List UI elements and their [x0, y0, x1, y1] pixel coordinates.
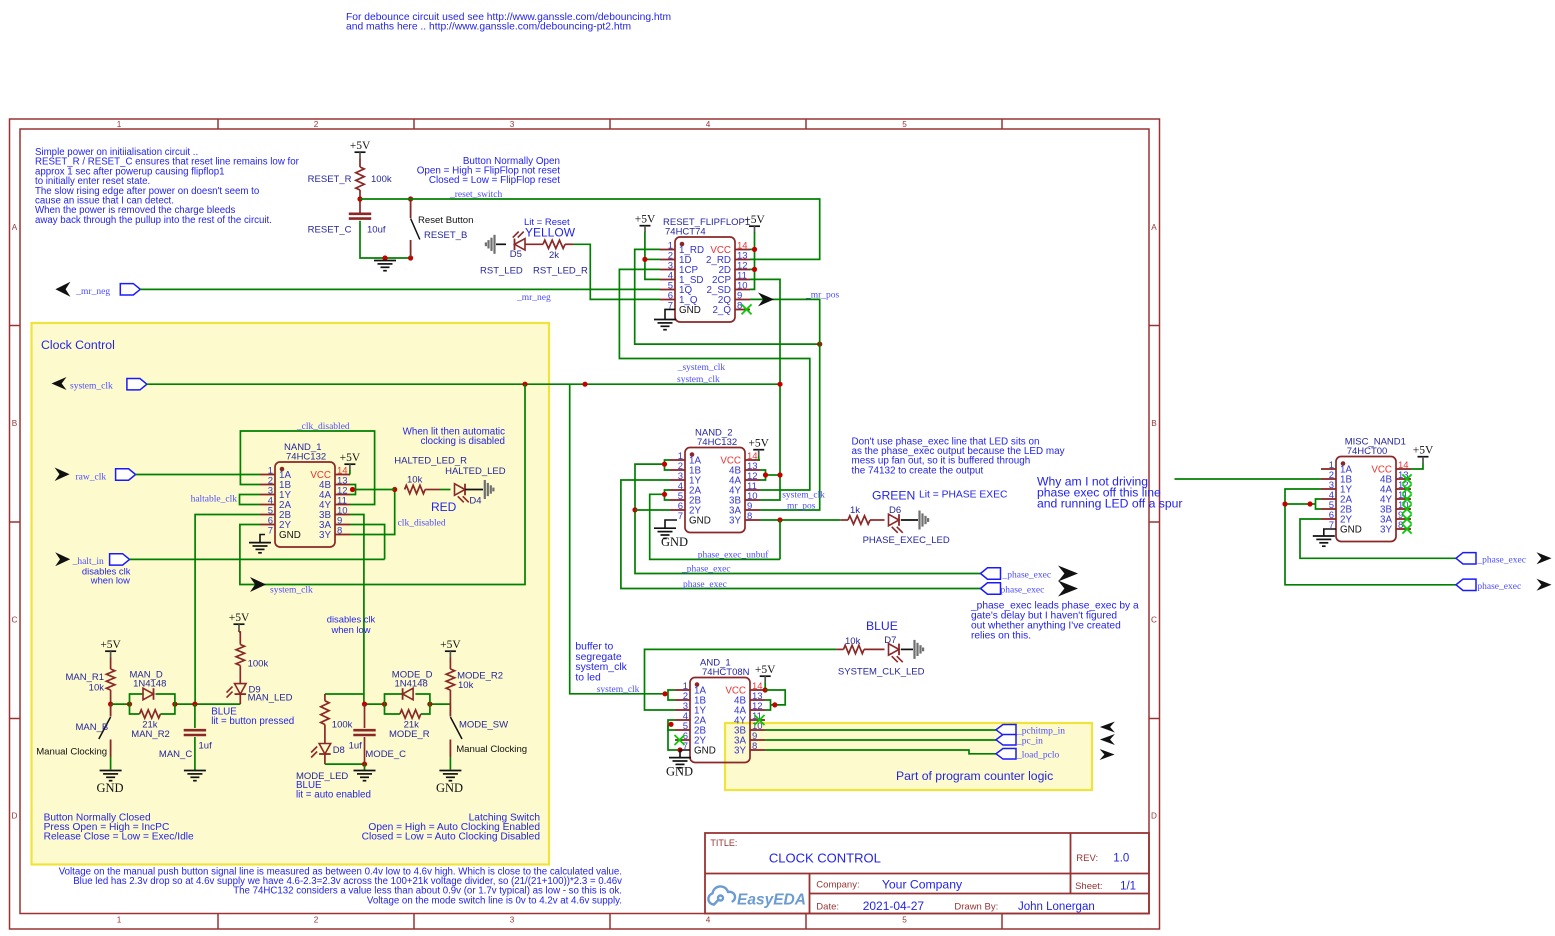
svg-text:8: 8: [737, 301, 742, 312]
svg-text:1: 1: [117, 120, 122, 129]
LED D6 PHASE_EXEC_LED green: [889, 514, 900, 526]
ground (reset RC): [374, 261, 396, 271]
port system_clk (left): [52, 377, 67, 390]
svg-text:Date:: Date:: [816, 902, 839, 913]
ground (chassis) for D4: [465, 489, 483, 491]
svg-text:_system_clk: _system_clk: [677, 363, 726, 373]
svg-text:3Y: 3Y: [1380, 525, 1392, 536]
svg-text:B: B: [12, 419, 18, 428]
resistor 10k (SYSTEM_CLK_LED): [836, 648, 843, 650]
svg-text:5: 5: [902, 120, 907, 129]
svg-text:D: D: [12, 812, 18, 821]
LED D8 MODE_LED blue: [319, 744, 331, 755]
svg-text:D4: D4: [469, 496, 481, 507]
wire 2Q net _mr_pos: [750, 299, 820, 510]
resistor HALTED_LED_R 10k: [405, 485, 426, 493]
svg-text:MODE_SW: MODE_SW: [459, 719, 508, 730]
wire 3A to _pc_in: [765, 739, 996, 741]
svg-text:clk_disabled: clk_disabled: [398, 519, 446, 529]
svg-text:phase_exec: phase_exec: [683, 580, 727, 590]
no-connect pins 13-8: [1402, 474, 1411, 483]
wire 1CP to _system_clk: [619, 269, 809, 490]
wire 3B to mode node: [350, 515, 364, 705]
IC RESET_FLIPFLOP1 74HCT74: [675, 237, 735, 322]
wire net system_clk main: [147, 383, 780, 385]
svg-text:+5V: +5V: [744, 214, 765, 226]
wire 3B to _pchitmp_in: [765, 729, 996, 731]
junction manual node: [108, 702, 113, 707]
wire 2Y to _phase_exec net: [635, 509, 670, 511]
svg-text:A: A: [12, 223, 18, 232]
svg-text:HALTED_LED: HALTED_LED: [445, 466, 506, 477]
svg-text:4: 4: [706, 120, 711, 129]
svg-text:and running LED off a spur: and running LED off a spur: [1037, 497, 1182, 511]
svg-text:buffer to: buffer to: [575, 642, 613, 653]
switch RESET_B (Reset Button): [410, 199, 412, 218]
ground (chassis) for D7: [901, 648, 913, 650]
svg-text:100k: 100k: [248, 659, 269, 670]
port _halt_in: [55, 552, 70, 566]
svg-text:when low: when low: [330, 624, 370, 635]
highlight box Clock Control: [32, 323, 550, 865]
svg-text:BLUE: BLUE: [866, 619, 898, 633]
svg-text:74HCT00: 74HCT00: [1347, 446, 1388, 457]
wire system_clk to AND_1 1A 1B: [570, 384, 668, 694]
svg-text:_mr_pos: _mr_pos: [805, 291, 840, 301]
svg-text:1: 1: [117, 916, 122, 925]
svg-text:phase_exec: phase_exec: [1477, 582, 1521, 592]
IC AND_1 74HCT08N: [690, 678, 750, 763]
wire input to 1B: [1175, 478, 1322, 480]
svg-text:3Y: 3Y: [729, 516, 741, 527]
wire 1Y to 2A haltable_clk: [240, 495, 261, 505]
svg-text:system_clk: system_clk: [782, 491, 825, 501]
port _phase_exec (right): [1456, 553, 1476, 564]
wire 2Y to _phase_exec: [1300, 519, 1456, 558]
svg-text:John Lonergan: John Lonergan: [1018, 901, 1095, 913]
capacitor RESET_C 10uf: [359, 199, 361, 214]
highlight box program counter logic: [725, 723, 1092, 790]
net flag arrow _mr_pos: [758, 292, 774, 306]
wire 2CP to system_clk: [750, 279, 780, 500]
svg-text:+5V: +5V: [755, 664, 776, 676]
svg-text:D5: D5: [510, 249, 522, 260]
svg-text:GREEN: GREEN: [872, 489, 915, 503]
svg-text:C: C: [12, 616, 18, 625]
resistor 100k (MODE_LED branch): [325, 693, 365, 695]
junction dots reset node: [357, 196, 362, 201]
svg-text:segregate: segregate: [575, 652, 621, 663]
svg-text:2: 2: [314, 916, 319, 925]
svg-text:MAN_C: MAN_C: [159, 749, 192, 760]
svg-text:HALTED_LED_R: HALTED_LED_R: [394, 455, 467, 466]
wire +5V to VCC and 4A 4B: [764, 683, 766, 691]
svg-text:RST_LED: RST_LED: [480, 266, 523, 277]
svg-text:_mr_neg: _mr_neg: [75, 287, 110, 297]
svg-text:phase_exec: phase_exec: [1001, 586, 1045, 596]
svg-text:+5V: +5V: [635, 214, 656, 226]
switch MODE_SW (Manual Clocking): [449, 704, 451, 716]
LED D4 HALTED_LED red: [455, 484, 466, 496]
svg-text:C: C: [1151, 616, 1157, 625]
LED D5 RST_LED yellow: [515, 239, 526, 251]
svg-text:lit = auto enabled: lit = auto enabled: [296, 790, 371, 801]
svg-text:74HC132: 74HC132: [697, 437, 737, 448]
svg-text:4: 4: [706, 916, 711, 925]
svg-text:MAN_B: MAN_B: [75, 722, 108, 733]
resistor MAN_R1 10k: [110, 658, 112, 670]
svg-text:_pc_in: _pc_in: [1016, 737, 1043, 747]
wire 3Y to _load_pclo: [765, 750, 996, 754]
svg-text:2_Q: 2_Q: [712, 305, 731, 316]
svg-text:2k: 2k: [549, 250, 559, 261]
svg-text:1k: 1k: [850, 505, 860, 516]
switch MAN_B (Manual Clocking): [110, 704, 112, 716]
svg-text:and maths here .. http://www.g: and maths here .. http://www.ganssle.com…: [346, 22, 631, 33]
svg-text:1uf: 1uf: [199, 740, 213, 751]
wire mode node rail: [365, 703, 385, 705]
LED D7 SYSTEM_CLK_LED blue: [889, 644, 900, 656]
svg-text:PHASE_EXEC_LED: PHASE_EXEC_LED: [863, 535, 950, 546]
svg-text:74HCT08N: 74HCT08N: [702, 667, 750, 678]
svg-text:Closed = Low = FlipFlop reset: Closed = Low = FlipFlop reset: [429, 175, 560, 186]
svg-text:10k: 10k: [89, 683, 105, 694]
svg-text:haltable_clk: haltable_clk: [191, 495, 238, 505]
svg-text:74HC132: 74HC132: [286, 452, 326, 463]
svg-text:+5V: +5V: [100, 639, 121, 651]
svg-text:D8: D8: [333, 745, 345, 756]
ground (flipflop GND pin7): [665, 309, 675, 319]
wire +5V to VCC: [1411, 463, 1423, 469]
wire net _reset_switch: [360, 199, 820, 259]
svg-text:raw_clk: raw_clk: [76, 473, 107, 483]
svg-text:GND: GND: [666, 765, 693, 779]
svg-text:relies on this.: relies on this.: [971, 631, 1031, 642]
svg-text:phase_exec_unbuf: phase_exec_unbuf: [698, 550, 770, 561]
wire 4B 4A tie to system_clk: [760, 470, 766, 475]
svg-text:system_clk: system_clk: [677, 375, 720, 385]
wire 1Y to SYSTEM_CLK_LED: [645, 649, 837, 710]
svg-text:_pchitmp_in: _pchitmp_in: [1016, 727, 1065, 737]
port phase_exec (right): [1456, 579, 1476, 590]
port _pc_in: [996, 735, 1016, 746]
svg-text:clocking is disabled: clocking is disabled: [421, 436, 505, 447]
svg-text:7: 7: [268, 526, 273, 537]
svg-text:10k: 10k: [845, 636, 861, 647]
port _phase_exec (mid): [981, 568, 1001, 579]
svg-text:SYSTEM_CLK_LED: SYSTEM_CLK_LED: [838, 666, 925, 677]
svg-text:2: 2: [314, 120, 319, 129]
svg-text:GND: GND: [436, 781, 463, 795]
svg-text:Company:: Company:: [816, 880, 859, 891]
port _pchitmp_in: [996, 725, 1016, 736]
port _mr_neg (left): [55, 282, 70, 297]
svg-text:the 74132 to create the output: the 74132 to create the output: [852, 465, 984, 476]
port raw_clk: [55, 468, 70, 482]
resistor RESET_R 100k: [359, 159, 361, 168]
svg-text:Reset Button: Reset Button: [418, 215, 473, 226]
svg-text:TITLE:: TITLE:: [710, 838, 737, 848]
svg-text:RED: RED: [431, 500, 457, 514]
svg-text:away back through the pullup i: away back through the pullup into the re…: [35, 215, 272, 226]
svg-text:1uf: 1uf: [349, 740, 363, 751]
svg-text:MODE_C: MODE_C: [365, 749, 406, 760]
wire 3A to _halt_in: [350, 525, 385, 560]
svg-text:100k: 100k: [371, 174, 392, 185]
port _load_pclo: [996, 749, 1016, 760]
svg-text:GND: GND: [279, 530, 301, 541]
svg-text:D: D: [1151, 812, 1157, 821]
no-connect 2Y: [675, 735, 685, 745]
no-connect 2_Q: [742, 304, 752, 314]
svg-text:A: A: [1151, 223, 1157, 232]
svg-text:Manual Clocking: Manual Clocking: [456, 744, 527, 755]
svg-text:_phase_exec: _phase_exec: [1476, 556, 1526, 566]
resistor 1k (PHASE_EXEC_LED): [840, 519, 848, 521]
svg-text:D7: D7: [884, 635, 896, 646]
svg-text:MAN_R2: MAN_R2: [131, 729, 170, 740]
port phase_exec (mid): [981, 583, 1001, 594]
svg-text:GND: GND: [689, 516, 711, 527]
wire +5V to VCC 2D 2_SD: [750, 232, 755, 290]
svg-text:system_clk: system_clk: [270, 586, 313, 596]
svg-text:_phase_exec: _phase_exec: [1002, 571, 1052, 581]
svg-text:7: 7: [678, 511, 683, 522]
resistor RST_LED_R 2k: [543, 240, 565, 248]
svg-text:lit = button pressed: lit = button pressed: [211, 716, 294, 727]
svg-text:GND: GND: [679, 305, 701, 316]
svg-text:RESET_R: RESET_R: [308, 174, 352, 185]
svg-text:1N4148: 1N4148: [133, 679, 166, 690]
svg-text:Release Close = Low = Exec/Idl: Release Close = Low = Exec/Idle: [44, 831, 194, 842]
svg-text:Clock Control: Clock Control: [41, 338, 115, 352]
ground (NAND_1 GND pin7): [260, 535, 265, 543]
wire 2Y to system_clk flag: [240, 384, 525, 584]
svg-text:GND: GND: [1340, 525, 1362, 536]
svg-text:Voltage on the mode switch lin: Voltage on the mode switch line is 0v to…: [367, 895, 622, 906]
svg-text:system_clk: system_clk: [597, 685, 640, 695]
svg-text:10k: 10k: [407, 475, 423, 486]
svg-text:_phase_exec: _phase_exec: [681, 565, 731, 575]
wire manual node rail: [111, 703, 130, 705]
svg-text:8: 8: [752, 741, 757, 752]
svg-text:+5V: +5V: [1413, 445, 1434, 457]
svg-text:Drawn By:: Drawn By:: [954, 902, 998, 913]
svg-text:8: 8: [747, 511, 752, 522]
wire 1_RD to _mr_pos: [635, 249, 820, 344]
wire 1Y to 2A 2B and phase_exec: [1285, 489, 1456, 585]
svg-text:Your Company: Your Company: [882, 878, 963, 892]
svg-text:1N4148: 1N4148: [395, 679, 428, 690]
svg-text:_load_pclo: _load_pclo: [1016, 751, 1059, 761]
svg-text:when low: when low: [90, 575, 130, 586]
svg-text:1.0: 1.0: [1113, 853, 1129, 865]
wire 3Y clk_disabled: [350, 490, 395, 535]
svg-text:100k: 100k: [332, 719, 353, 730]
wire 3Y output phase_exec_unbuf: [760, 519, 840, 521]
svg-text:REV:: REV:: [1076, 853, 1098, 864]
wire 1Y net phase_exec: [621, 480, 981, 589]
svg-text:D6: D6: [889, 505, 901, 516]
svg-text:Lit = PHASE EXEC: Lit = PHASE EXEC: [919, 490, 1008, 501]
svg-text:MAN_R1: MAN_R1: [65, 672, 104, 683]
wire 4B 4A tie to clk_disabled: [350, 485, 356, 490]
svg-text:B: B: [1151, 419, 1157, 428]
wire 1A 1B tie to _phase_exec: [665, 460, 671, 464]
ground (MODE_C): [354, 771, 376, 781]
svg-text:5: 5: [902, 916, 907, 925]
wire +5V to 1D and 1_SD: [645, 232, 660, 280]
diode MAN_D 1N4148 with MAN_R2 parallel: [130, 694, 144, 704]
svg-text:MODE_R: MODE_R: [389, 729, 430, 740]
svg-text:GND: GND: [96, 781, 123, 795]
IC NAND_1 74HC132: [275, 462, 335, 547]
ground (AND_1 GND pin7): [680, 750, 690, 757]
svg-text:10k: 10k: [458, 680, 474, 691]
svg-text:GND: GND: [694, 746, 716, 757]
ground (NAND_2 GND pin7): [665, 520, 677, 528]
wire 2B to manual node: [195, 515, 260, 705]
svg-text:_mr_neg: _mr_neg: [516, 293, 551, 303]
svg-text:Part of program counter logic: Part of program counter logic: [896, 769, 1053, 783]
svg-text:_reset_switch: _reset_switch: [449, 190, 502, 200]
ground (chassis) for D5: [485, 235, 496, 254]
resistor MODE_R2 10k: [449, 658, 451, 670]
svg-text:+5V: +5V: [350, 140, 371, 152]
ground (MAN_C): [184, 771, 206, 781]
svg-text:8: 8: [337, 526, 342, 537]
wire RESET_C to ground rail: [360, 221, 411, 258]
title block: [705, 833, 1149, 914]
no-connect 4Y: [755, 715, 765, 725]
ground (MODE_SW): [439, 771, 461, 781]
svg-text:3: 3: [510, 916, 515, 925]
svg-text:CLOCK CONTROL: CLOCK CONTROL: [769, 851, 881, 866]
svg-text:EasyEDA: EasyEDA: [737, 892, 806, 909]
wire 2A 2B tie: [665, 490, 671, 494]
svg-text:+5V: +5V: [340, 452, 361, 464]
EasyEDA logo: [708, 886, 735, 904]
svg-text:Closed = Low = Auto Clocking D: Closed = Low = Auto Clocking Disabled: [362, 831, 541, 842]
svg-text:MAN_LED: MAN_LED: [248, 693, 293, 704]
svg-text:_mr_pos: _mr_pos: [781, 502, 816, 512]
svg-text:Manual Clocking: Manual Clocking: [36, 747, 107, 758]
wire raw_clk to 1A: [136, 474, 260, 476]
svg-text:_clk_disabled: _clk_disabled: [296, 422, 350, 432]
svg-text:3Y: 3Y: [319, 530, 331, 541]
capacitor MODE_C 1uf: [364, 704, 366, 728]
svg-text:system_clk: system_clk: [575, 662, 627, 673]
wire D8 return to MODE_C ground: [325, 763, 365, 765]
svg-text:RESET_C: RESET_C: [308, 225, 352, 236]
wire _clk_disabled loop 4Y to 1B: [240, 431, 374, 505]
svg-text:3Y: 3Y: [734, 746, 746, 757]
svg-text:RESET_B: RESET_B: [424, 230, 467, 241]
wire 2A 2B tie to GND: [668, 720, 675, 724]
svg-text:system_clk: system_clk: [70, 382, 113, 392]
ground (MAN_B): [100, 771, 122, 781]
wire net _halt_in: [130, 558, 385, 560]
net flag arrow system_clk (internal): [250, 577, 266, 592]
svg-text:3: 3: [510, 120, 515, 129]
svg-text:to led: to led: [575, 673, 601, 684]
svg-text:GND: GND: [661, 535, 688, 549]
svg-text:RST_LED_R: RST_LED_R: [533, 266, 588, 277]
LED D9 MAN_LED blue: [235, 684, 247, 695]
svg-text:+5V: +5V: [229, 612, 250, 624]
IC NAND_2 74HC132: [685, 448, 745, 533]
svg-text:1/1: 1/1: [1120, 880, 1136, 892]
svg-text:+5V: +5V: [748, 438, 769, 450]
svg-text:10uf: 10uf: [367, 225, 386, 236]
svg-text:74HCT74: 74HCT74: [665, 227, 706, 238]
svg-text:+5V: +5V: [440, 639, 461, 651]
wire net _mr_neg: [140, 288, 660, 290]
svg-text:Sheet:: Sheet:: [1075, 881, 1102, 892]
ground (chassis) for D6: [901, 519, 918, 521]
ground (MISC_NAND1 GND pin7): [1324, 529, 1336, 535]
IC MISC_NAND1 74HCT00: [1336, 457, 1396, 542]
svg-text:YELLOW: YELLOW: [525, 226, 576, 240]
svg-text:2021-04-27: 2021-04-27: [863, 899, 925, 913]
capacitor MAN_C 1uf: [194, 704, 196, 728]
wire D5 branch to flipflop 1_Q: [573, 244, 660, 299]
diode MODE_D 1N4148 with MODE_R parallel: [385, 694, 403, 704]
